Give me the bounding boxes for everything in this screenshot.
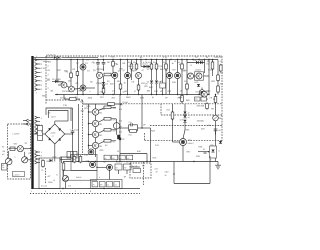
- value label 156: [36, 92, 38, 95]
- svg-text:C10: C10: [74, 129, 77, 132]
- wire gnd stub: [63, 170, 65, 176]
- wire box feed: [60, 156, 71, 158]
- wire vert 120 dn: [119, 140, 121, 161]
- wire col98 top: [97, 60, 99, 62]
- svg-text:D5: D5: [90, 80, 94, 83]
- junction mid98: [97, 94, 98, 95]
- resistor R44: [79, 155, 82, 163]
- svg-text:5VE: 5VE: [153, 157, 158, 160]
- junction bus182: [181, 59, 182, 60]
- transistor Q7: [125, 73, 131, 79]
- resistor R24 load: [104, 140, 111, 143]
- label R-ASSY: [132, 165, 138, 168]
- bridge rectifier BR1 outline: [45, 124, 65, 144]
- svg-text:2SC: 2SC: [207, 90, 212, 93]
- svg-text:D10: D10: [154, 90, 159, 93]
- transistor Q5: [96, 72, 102, 78]
- svg-text:2SB507: 2SB507: [188, 142, 194, 145]
- value label 121: [41, 158, 43, 161]
- svg-text:R8: R8: [117, 80, 121, 83]
- wire reg col v2: [95, 115, 97, 120]
- wire r31 up: [172, 104, 174, 112]
- svg-text:R29: R29: [100, 149, 105, 152]
- wire col156 dn: [156, 84, 158, 95]
- svg-text:D: D: [219, 150, 221, 153]
- terminal board outline: [91, 180, 123, 189]
- wire box feed2: [59, 157, 61, 162]
- wire q2 base: [58, 84, 61, 86]
- rail bottom: [34, 188, 140, 190]
- wire d21 dn: [184, 123, 186, 130]
- wire reg res out 1: [111, 106, 116, 108]
- svg-text:R37: R37: [187, 151, 192, 154]
- svg-text:R14: R14: [153, 61, 156, 64]
- transistor Q23: [92, 131, 98, 137]
- svg-text:C50: C50: [155, 168, 158, 171]
- label D1 2-6: [47, 54, 57, 57]
- wire col218 mid: [217, 81, 219, 87]
- label TP1: [195, 98, 198, 101]
- value label 41: [159, 81, 163, 84]
- junction bus120: [120, 59, 121, 60]
- value label 3: [116, 63, 119, 66]
- label Q6: [118, 70, 121, 73]
- wire q13 up: [201, 88, 203, 90]
- svg-text:C12: C12: [129, 121, 132, 124]
- zener ZD1 box: [210, 146, 217, 158]
- value label 46: [51, 89, 55, 92]
- label PW-01: [76, 176, 81, 179]
- value label 10: [179, 63, 182, 66]
- label L-ASSY top: [13, 133, 21, 136]
- svg-text:C50: C50: [203, 152, 208, 155]
- driver box PW-01 outline: [63, 171, 97, 181]
- junction rail161 194: [193, 161, 194, 162]
- resistor R13: [150, 63, 153, 70]
- dashed net horizontal 140: [145, 140, 223, 142]
- wire d21 col: [184, 104, 186, 112]
- diode D10: [196, 61, 199, 64]
- value label 88: [180, 119, 185, 122]
- wire top feed: [34, 57, 54, 59]
- pin label 89.2: [41, 88, 43, 91]
- value label 23: [147, 68, 150, 71]
- connector CN2 pin 5: [35, 131, 40, 134]
- junction mid83: [82, 94, 83, 95]
- label R22: [129, 133, 132, 136]
- value label 93: [199, 146, 204, 149]
- value label 35: [110, 83, 114, 86]
- wire diode row: [141, 66, 152, 68]
- svg-text:E: E: [57, 174, 59, 177]
- svg-text:1S1555: 1S1555: [197, 120, 205, 123]
- value label 51: [112, 90, 116, 93]
- svg-text:1k: 1k: [124, 81, 127, 84]
- value label 113: [25, 142, 28, 145]
- wire reg res out 4: [111, 140, 116, 142]
- value label 160: [117, 150, 120, 153]
- svg-text:C4: C4: [87, 70, 91, 73]
- label box row2-3: [119, 155, 125, 160]
- value label 49: [90, 90, 92, 93]
- junction mid extra 156.5: [156, 94, 157, 95]
- junction reg base 3: [88, 134, 89, 135]
- value label 77: [98, 145, 103, 148]
- main board dashed border top: [46, 55, 222, 57]
- transistor Q2: [61, 82, 67, 88]
- svg-text:1P: 1P: [165, 97, 168, 100]
- value label 72: [51, 116, 56, 119]
- wire vert 78: [78, 104, 80, 162]
- label TB4: [115, 184, 117, 187]
- value label 162: [31, 190, 33, 193]
- junction mid177: [177, 94, 178, 95]
- wire col162 up: [162, 60, 164, 84]
- value label 108: [126, 161, 132, 164]
- label GND net: [165, 171, 170, 174]
- svg-text:2: 2: [41, 80, 43, 83]
- svg-text:953: 953: [149, 86, 153, 89]
- svg-text:AC-2: AC-2: [126, 161, 132, 164]
- terminal block TB1: [92, 182, 98, 187]
- value label 136: [48, 87, 50, 90]
- value label 104: [124, 175, 127, 178]
- svg-text:SW: SW: [14, 143, 17, 146]
- diode D6: [144, 65, 147, 68]
- wire d21 bend: [183, 130, 185, 138]
- label box L-ASSY: [13, 172, 25, 177]
- svg-text:D26: D26: [196, 155, 201, 158]
- svg-text:D12: D12: [195, 81, 200, 84]
- value label 34: [107, 80, 111, 83]
- svg-text:A2: A2: [127, 157, 129, 160]
- wire vert 72 low: [72, 134, 74, 162]
- label R16: [177, 61, 180, 64]
- value label 22: [142, 69, 145, 72]
- connector CN2 pin 1: [35, 116, 40, 119]
- junction bus extra 171: [170, 59, 171, 60]
- label box row2-4: [127, 155, 133, 160]
- label D22: [188, 116, 191, 119]
- value label 56: [168, 90, 172, 93]
- svg-text:0: 0: [60, 190, 62, 193]
- svg-text:1: 1: [41, 151, 43, 154]
- value label 132: [48, 65, 50, 68]
- svg-text:R50: R50: [72, 158, 75, 161]
- label 2SD313: [195, 69, 202, 72]
- resistor R21 load: [104, 106, 111, 109]
- wire bridge top: [54, 121, 56, 124]
- value label 71: [48, 112, 51, 115]
- wire vert 142: [141, 95, 143, 129]
- junction bus209: [208, 59, 209, 60]
- junction bus113: [112, 59, 113, 60]
- svg-text:1P: 1P: [165, 174, 168, 177]
- value label 11: [191, 64, 193, 67]
- label reg 3: [113, 130, 117, 133]
- connector CN3 pin 1: [35, 151, 40, 154]
- value label 5: [129, 65, 133, 68]
- value label 58: [196, 91, 200, 94]
- transistor Q31: [90, 162, 96, 168]
- wire col204: [204, 60, 206, 74]
- svg-text:24V: 24V: [101, 55, 105, 58]
- value label 63: [100, 96, 105, 99]
- label Q15: [188, 139, 191, 142]
- svg-text:GND: GND: [42, 94, 47, 97]
- value label 102: [69, 185, 72, 188]
- svg-text:x: x: [15, 155, 17, 158]
- fuse F2: [10, 147, 15, 150]
- bridge diode BR1-a: [48, 128, 51, 131]
- wire th1 drop: [118, 170, 120, 174]
- line filter FL1 box: [38, 126, 43, 141]
- label box row2-2: [112, 155, 118, 160]
- sub-board dashed border joint: [46, 99, 83, 101]
- thermal fuse TH-2 box: [124, 164, 132, 170]
- svg-text:2A: 2A: [3, 150, 6, 153]
- junction bus156: [156, 59, 157, 60]
- value label 146: [211, 108, 214, 111]
- svg-text:RY: RY: [142, 165, 145, 168]
- label CP-1P: [165, 174, 168, 177]
- value label 12: [200, 59, 205, 62]
- value label 59: [207, 90, 212, 93]
- value label 155: [36, 55, 38, 58]
- label 2SC945: [58, 78, 61, 81]
- label D3: [52, 78, 60, 81]
- value label 42: [172, 81, 177, 84]
- value label 159: [80, 101, 85, 104]
- pin label 80.8: [41, 80, 43, 83]
- transistor Q4: [80, 85, 86, 91]
- wire col218 dn: [217, 92, 219, 95]
- value label 153: [155, 144, 160, 147]
- wire q9 up: [169, 60, 171, 73]
- junction 120-161: [119, 161, 120, 162]
- svg-text:6V: 6V: [48, 69, 51, 72]
- wire gnd dn: [65, 182, 67, 189]
- wire reg res out 2: [111, 118, 116, 120]
- wire col98 mid: [97, 66, 99, 73]
- value label 145: [220, 60, 223, 63]
- value label 89: [197, 120, 205, 123]
- resistor R23 load: [104, 129, 111, 132]
- svg-text:PW-01: PW-01: [76, 176, 81, 179]
- svg-text:S1: S1: [25, 142, 28, 145]
- wire col83 mid: [82, 70, 84, 85]
- value label 135: [48, 78, 51, 81]
- wire col131 dn: [131, 69, 133, 80]
- svg-text:E: E: [210, 159, 212, 162]
- svg-text:8: 8: [90, 190, 92, 193]
- wire col151 up: [151, 60, 153, 65]
- wire meter dn: [116, 129, 118, 135]
- wire q13 dn: [201, 95, 203, 97]
- svg-text:2: 2: [41, 88, 43, 91]
- svg-text:47: 47: [203, 148, 206, 151]
- svg-text:S: S: [41, 155, 43, 158]
- resistor R18: [211, 61, 214, 70]
- value label 30: [68, 79, 72, 82]
- svg-text:7: 7: [36, 92, 38, 95]
- label Q13: [206, 90, 209, 93]
- svg-text:2SC: 2SC: [182, 70, 187, 73]
- wire q11-q12: [194, 75, 197, 77]
- wire col187 dn: [186, 89, 188, 95]
- label Q7: [123, 69, 125, 72]
- value label 137: [86, 59, 90, 62]
- svg-text:TP: TP: [206, 98, 209, 101]
- wire vert 174: [173, 162, 175, 184]
- fuse F1 dark block: [117, 135, 120, 139]
- value label 115: [15, 155, 17, 158]
- value label 14: [215, 56, 220, 59]
- value label 128: [68, 55, 70, 58]
- svg-text:A1: A1: [107, 184, 109, 187]
- external assy dashed box: [8, 124, 31, 179]
- junction reg base 4: [88, 145, 89, 146]
- label D4: [106, 83, 108, 86]
- value label 105: [142, 165, 145, 168]
- junction mid120: [120, 94, 121, 95]
- junction 72-161: [72, 161, 73, 162]
- diode D23: [183, 120, 186, 123]
- resistor R6 bias: [104, 73, 111, 76]
- connector CN3 pin 3: [35, 158, 40, 161]
- pin label 59.8: [41, 59, 43, 62]
- wire bridge left: [34, 133, 45, 135]
- value label 150: [210, 159, 212, 162]
- diode D3: [55, 80, 58, 83]
- transistor Q3: [69, 86, 75, 92]
- value label 37: [124, 81, 127, 84]
- wire col57: [56, 60, 58, 82]
- value label 76: [98, 134, 103, 137]
- label P-5VE: [123, 101, 129, 104]
- svg-text:PL: PL: [105, 157, 107, 160]
- svg-text:SR: SR: [211, 108, 214, 111]
- pin label 85: [41, 84, 43, 87]
- value label 151: [151, 130, 156, 133]
- label 24V: [43, 60, 50, 63]
- wire th2 drop: [126, 170, 128, 174]
- value label 130: [122, 138, 125, 141]
- wire col103 bottom: [103, 93, 105, 95]
- wire reg base 3: [89, 134, 93, 136]
- wire col177 up: [177, 60, 179, 73]
- junction 97-167: [96, 167, 97, 168]
- IC IC1: [160, 83, 166, 88]
- svg-text:220: 220: [110, 83, 114, 86]
- value label 52: [123, 91, 127, 94]
- svg-text:0.5: 0.5: [196, 91, 200, 94]
- value label 47: [62, 90, 70, 93]
- svg-text:E1: E1: [69, 185, 72, 188]
- transistor Q21: [92, 109, 98, 115]
- wire col136 up: [136, 60, 138, 65]
- wire col138 bot: [138, 90, 140, 95]
- junction 215-94: [215, 94, 216, 95]
- svg-text:2: 2: [48, 74, 50, 77]
- svg-text:C10: C10: [63, 104, 68, 107]
- value label 28: [47, 79, 51, 82]
- svg-text:24V: 24V: [113, 107, 117, 110]
- junction mid103: [103, 94, 104, 95]
- svg-text:2SD: 2SD: [98, 123, 103, 126]
- wire gnd stub up: [61, 157, 63, 163]
- svg-text:220: 220: [168, 90, 172, 93]
- resistor R43: [73, 155, 76, 163]
- value label 38: [132, 81, 136, 84]
- value label 94: [204, 152, 207, 155]
- wire col141: [140, 60, 142, 67]
- wire bridge top2: [55, 120, 68, 122]
- value label 110: [2, 145, 5, 148]
- svg-text:RY-1P: RY-1P: [132, 165, 138, 168]
- svg-text:47: 47: [188, 112, 190, 115]
- resistor R31: [181, 94, 184, 102]
- value label 68: [165, 97, 168, 100]
- label reg 4: [113, 141, 116, 144]
- label TB1: [93, 184, 95, 187]
- wire r31 dn: [172, 119, 174, 142]
- svg-text:R15: R15: [172, 81, 177, 84]
- value label 119: [41, 131, 43, 134]
- svg-text:C3: C3: [86, 59, 90, 62]
- wire rc feed: [120, 127, 129, 129]
- junction mid77: [77, 94, 78, 95]
- value label 92: [210, 144, 214, 147]
- connector CN1 pin 6: [35, 79, 41, 82]
- wire col212 dn: [212, 69, 214, 76]
- wire col209: [208, 60, 210, 95]
- test point TP-2 box: [201, 97, 207, 101]
- value label 103: [99, 176, 101, 179]
- wire col187: [186, 60, 188, 85]
- dashed net horizontal 126: [150, 125, 222, 127]
- wire fuse left: [9, 148, 11, 150]
- svg-text:1P: 1P: [143, 123, 146, 126]
- connector strip CN1: [31, 56, 33, 189]
- dashed net horizontal 115: [161, 114, 222, 116]
- junction rail188 104: [103, 188, 104, 189]
- value label 164: [60, 190, 62, 193]
- svg-text:100p: 100p: [88, 97, 93, 100]
- value label 21: [131, 70, 136, 73]
- sub-board inner dashed: [45, 168, 47, 184]
- svg-text:2: 2: [48, 87, 50, 90]
- connector CN1 pin 2: [35, 63, 41, 66]
- wire col113 top: [112, 60, 114, 62]
- wire reg base 1: [89, 111, 93, 113]
- svg-text:2SD313: 2SD313: [195, 69, 202, 72]
- value label 129: [125, 90, 128, 93]
- junction bus151: [151, 59, 152, 60]
- value label 31: [76, 82, 80, 85]
- wire vert 150: [150, 128, 152, 162]
- svg-text:L-ASSY: L-ASSY: [13, 133, 21, 136]
- svg-text:1S: 1S: [147, 68, 150, 71]
- svg-text:L-ASSY: L-ASSY: [13, 173, 20, 176]
- svg-text:15V: 15V: [48, 60, 52, 63]
- svg-text:0V: 0V: [48, 78, 51, 81]
- wire col83 upper: [82, 60, 84, 65]
- junction bus83: [82, 59, 83, 60]
- value label 0: [85, 62, 89, 65]
- value label 109: [103, 161, 107, 164]
- svg-text:R34: R34: [208, 124, 211, 127]
